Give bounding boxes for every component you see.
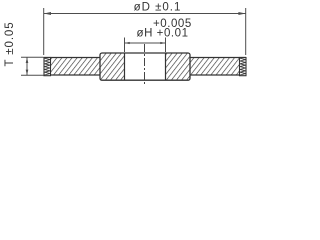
right rim zigzag fill	[240, 58, 246, 75]
dim D dimension line	[44, 13, 246, 15]
dim D extension line right	[245, 8, 247, 55]
body left hatched flange	[51, 58, 101, 76]
svg-text:øH +0.01: øH +0.01	[137, 28, 189, 40]
hole H (white)	[125, 53, 166, 80]
body bottom edge left	[51, 74, 101, 76]
dim H dimension line	[125, 42, 166, 44]
dim H extension line left	[124, 38, 126, 53]
body top edge right	[190, 57, 246, 59]
dim D arrow right	[238, 12, 245, 15]
dim D arrow left	[44, 12, 51, 15]
dim H arrow right	[160, 42, 165, 44]
dim D extension line left	[43, 8, 45, 55]
left abrasive rim outline	[44, 58, 51, 76]
hole left wall	[124, 53, 126, 80]
hub outline	[100, 53, 190, 80]
dim T extension line top	[21, 56, 44, 58]
hub hatched	[100, 53, 190, 80]
centerline	[144, 44, 146, 84]
body bottom edge right	[190, 74, 240, 76]
body top edge left	[44, 57, 100, 59]
dim T extension line bottom	[21, 74, 44, 76]
svg-text:øD ±0.1: øD ±0.1	[134, 2, 182, 14]
right abrasive rim outline	[240, 58, 247, 76]
dim H arrow left	[125, 42, 130, 44]
dim T dimension line	[26, 57, 28, 75]
dim T arrow bottom	[26, 70, 29, 76]
svg-text:T ±0.05: T ±0.05	[4, 21, 16, 66]
hole right wall	[165, 53, 167, 80]
left rim zigzag fill	[45, 58, 51, 75]
body right hatched flange	[190, 58, 240, 76]
dim H extension line right	[165, 38, 167, 53]
dim T arrow top	[26, 57, 29, 63]
